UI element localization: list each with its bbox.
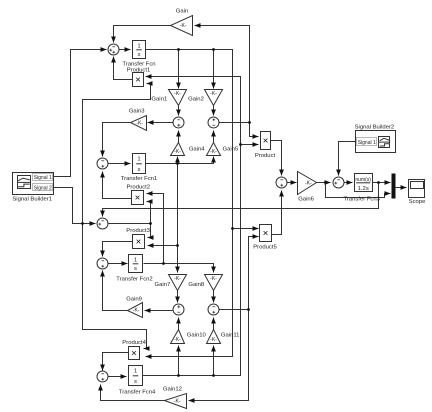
junction SumD bus	[247, 308, 250, 311]
svg-text:Gain4: Gain4	[189, 147, 205, 153]
integrator Transfer Fcn	[133, 41, 146, 59]
junction bus-Gain	[248, 121, 251, 124]
junction x1-Gain2	[212, 48, 215, 51]
wire x2 branch down to Gain7	[177, 164, 179, 273]
svg-text:Gain: Gain	[176, 9, 188, 15]
wire Gain9 output to Sum4 bottom	[103, 271, 128, 311]
wire SumD bus up to Product5 in2	[249, 237, 259, 310]
gain block Gain	[171, 16, 193, 36]
svg-text:-K-: -K-	[305, 181, 312, 187]
gain block Gain6	[298, 172, 317, 195]
sum block Sum4	[97, 258, 108, 269]
svg-text:Transfer Fcn2: Transfer Fcn2	[116, 276, 152, 282]
wire Sum1 to Transfer Fcn	[119, 49, 131, 51]
wire Sum5 to Transfer Fcn4	[109, 376, 127, 378]
wire Signal2 branch to Product1 in2	[83, 84, 151, 224]
wire Gain output to Sum1 top	[114, 26, 171, 43]
svg-text:-K-: -K-	[136, 121, 143, 127]
wire Transfer Fcn1 output x2	[146, 157, 214, 164]
junction u	[324, 181, 327, 184]
wire SumA output to Gain3	[148, 122, 173, 124]
svg-text:Gain11: Gain11	[221, 333, 240, 339]
wire Transfer Fcn2 output x3	[144, 264, 214, 273]
wire Product5 output to Sum6 bottom	[272, 191, 282, 235]
junction x4-Gain10	[177, 374, 180, 377]
svg-text:Transfer Fcn4: Transfer Fcn4	[119, 390, 156, 396]
wire Gain10 to SumC bottom	[178, 318, 180, 330]
svg-text:1: 1	[134, 257, 137, 263]
sum block SumC	[173, 304, 184, 315]
wire Sum2 to Transfer Fcn1	[108, 163, 131, 165]
svg-text:s: s	[138, 52, 141, 58]
wire x1 branch to Gain1	[178, 50, 180, 89]
svg-text:Gain10: Gain10	[187, 333, 207, 339]
svg-text:-K-: -K-	[210, 91, 217, 97]
wire Sum3 bus up to Product2 in2	[147, 202, 151, 224]
wire x2 branch to Gain4	[177, 157, 179, 164]
sink block Scope	[409, 180, 425, 198]
svg-text:1: 1	[134, 368, 137, 374]
wire x4 branch to Gain10	[178, 346, 180, 376]
wire Transfer Fcn output bus x1	[146, 50, 233, 357]
svg-text:Transfer Fcn1: Transfer Fcn1	[121, 176, 157, 182]
svg-text:Transfer Fcn3: Transfer Fcn3	[343, 197, 380, 203]
svg-text:num(s): num(s)	[355, 177, 371, 183]
wire Sum3 output bus	[109, 223, 151, 225]
junction x2-Product3	[176, 244, 179, 247]
wire Gain12 output to Sum5 bottom	[101, 385, 165, 401]
svg-text:Gain9: Gain9	[126, 296, 142, 302]
wire Transfer Fcn4 output bus x4	[143, 77, 241, 376]
wire Gain1 to SumA top	[178, 106, 180, 116]
transfer function Transfer Fcn3	[355, 174, 373, 193]
junction x3-Product2	[162, 262, 165, 265]
junction x2-Gain4	[176, 162, 179, 165]
wire Gain5 to SumB bottom	[213, 131, 215, 143]
wire Gain6 to Sum7	[317, 182, 331, 184]
wire Product output to Sum6 top	[271, 141, 282, 176]
product block Product4	[129, 347, 140, 360]
svg-text:Signal 1: Signal 1	[358, 140, 376, 146]
integrator Transfer Fcn1	[133, 154, 146, 174]
svg-text:-K-: -K-	[174, 276, 181, 282]
svg-text:-K-: -K-	[210, 337, 217, 343]
svg-text:1: 1	[137, 156, 140, 162]
wire Signal2 to Sum3 left	[54, 188, 96, 224]
wire Gain2 to SumB top	[213, 106, 215, 116]
svg-text:-K-: -K-	[174, 149, 181, 155]
svg-text:s: s	[134, 266, 137, 272]
wire Sum6 to Gain6	[287, 182, 297, 184]
svg-text:Gain3: Gain3	[129, 108, 145, 114]
wire output feedback to Sum3 top	[103, 183, 379, 217]
wire Sum7 to Transfer Fcn3	[345, 182, 353, 184]
svg-text:Transfer Fcn: Transfer Fcn	[122, 61, 155, 67]
wire bus to Product in1	[250, 123, 259, 137]
svg-text:1.2s: 1.2s	[358, 186, 369, 192]
svg-text:-K-: -K-	[210, 149, 217, 155]
sum block SumB	[208, 117, 219, 128]
wire Product2 output to Sum2 bottom	[103, 172, 132, 199]
integrator Transfer Fcn4	[129, 366, 143, 386]
sum block SumD	[208, 304, 219, 315]
svg-text:Product4: Product4	[122, 340, 146, 346]
gain block Gain1	[169, 90, 187, 106]
product block Product3	[133, 235, 145, 249]
svg-text:Signal Builder1: Signal Builder1	[12, 197, 52, 203]
gain block Gain5	[207, 143, 221, 156]
svg-text:-K-: -K-	[174, 91, 181, 97]
source block Signal Builder1	[13, 173, 54, 195]
wire x2 branch to Product3 in2	[148, 245, 178, 247]
junction Signal2	[81, 222, 84, 225]
gain block Gain9	[128, 303, 143, 318]
svg-text:s: s	[134, 379, 137, 385]
junction Sum3 bus	[149, 222, 152, 225]
svg-text:1: 1	[137, 43, 140, 49]
wire Signal1 to Sum1 left	[54, 50, 107, 177]
junction x1-Gain1	[177, 48, 180, 51]
svg-text:Product5: Product5	[253, 245, 277, 251]
product block Product1	[133, 73, 144, 87]
svg-text:Gain5: Gain5	[223, 147, 239, 153]
svg-text:Product2: Product2	[127, 185, 151, 191]
svg-text:Gain2: Gain2	[188, 96, 204, 102]
wire SumD bus down to Gain12	[189, 310, 249, 401]
wire Sum3 bus down to Product3 in1	[148, 224, 151, 238]
svg-text:-K-: -K-	[210, 276, 217, 282]
svg-text:Product: Product	[255, 153, 276, 159]
gain block Gain7	[169, 275, 187, 291]
sum block Sum6	[276, 177, 287, 188]
sum block Sum1	[108, 44, 119, 55]
wire Gain11 to SumD bottom	[213, 318, 215, 330]
product block Product2	[132, 191, 144, 205]
svg-text:Signal Builder2: Signal Builder2	[355, 125, 395, 131]
mux block	[392, 174, 396, 199]
svg-text:Scope: Scope	[409, 199, 426, 205]
svg-text:Gain7: Gain7	[155, 282, 171, 288]
integrator Transfer Fcn2	[129, 255, 143, 273]
gain block Gain2	[205, 90, 223, 106]
source block Signal Builder2	[356, 131, 396, 153]
gain block Gain11	[207, 330, 221, 344]
gain block Gain3	[131, 116, 147, 131]
gain block Gain4	[171, 143, 185, 156]
sum block Sum2	[97, 158, 108, 169]
svg-text:-K-: -K-	[180, 23, 187, 29]
svg-text:Gain12: Gain12	[163, 387, 182, 393]
sum block Sum5	[97, 371, 108, 382]
svg-text:Signal 2: Signal 2	[34, 186, 52, 192]
gain block Gain10	[171, 330, 185, 344]
svg-text:s: s	[138, 167, 141, 173]
junction y-Mux	[377, 181, 380, 184]
wire Product4 output to Sum5 top	[103, 353, 129, 371]
svg-text:-K-: -K-	[174, 337, 181, 343]
wire Gain3 output to Sum2 top	[103, 123, 131, 157]
gain block Gain8	[205, 275, 223, 291]
sum block Sum3	[97, 218, 108, 229]
wire Product1 output to Sum1 bottom	[114, 57, 133, 80]
svg-text:Gain1: Gain1	[151, 96, 167, 102]
wire Product3 output to Sum4 top	[103, 242, 133, 257]
wire x1 branch to Gain2	[213, 50, 215, 89]
sum block Sum7	[333, 177, 344, 188]
wire Sum4 to Transfer Fcn2	[108, 263, 128, 265]
svg-text:Gain6: Gain6	[298, 196, 314, 202]
wire feedback into Gain input	[195, 26, 250, 123]
wire Signal2 branch to Product4 in1	[83, 224, 147, 349]
product block Product	[261, 132, 271, 150]
junction x4-Gain11	[212, 374, 215, 377]
wire Signal Builder2 to Sum7 top	[339, 142, 356, 176]
svg-text:Product3: Product3	[126, 228, 150, 234]
wire x4 branch to Gain11	[213, 346, 215, 376]
wire SumD output bus	[219, 309, 249, 311]
wire x4 branch to Product in2	[241, 144, 259, 146]
wire SumC output to Gain9	[145, 310, 173, 312]
sum block SumA	[173, 117, 184, 128]
junction x4-Product	[239, 143, 242, 146]
wire Gain7 to SumC top	[177, 291, 179, 303]
wire Gain8 to SumD top	[213, 291, 215, 303]
wire Transfer Fcn3 to Mux in1	[373, 182, 391, 184]
wire Mux to Scope	[396, 187, 407, 189]
wire u branch to Mux in2	[326, 183, 391, 198]
svg-text:Gain8: Gain8	[188, 282, 204, 288]
product block Product5	[260, 225, 272, 242]
svg-text:-K-: -K-	[133, 308, 140, 314]
svg-text:Signal 1: Signal 1	[34, 175, 52, 181]
wire SumB output bus	[220, 122, 250, 124]
wire Gain4 to SumA bottom	[178, 131, 180, 143]
gain block Gain12	[165, 394, 187, 409]
svg-text:-K-: -K-	[174, 399, 181, 405]
svg-text:Product1: Product1	[127, 68, 151, 74]
wire x1 branch to Product5 in1	[233, 228, 259, 230]
wire x3 branch up to Product2 in1	[147, 194, 164, 264]
junction x1-Product5	[231, 227, 234, 230]
